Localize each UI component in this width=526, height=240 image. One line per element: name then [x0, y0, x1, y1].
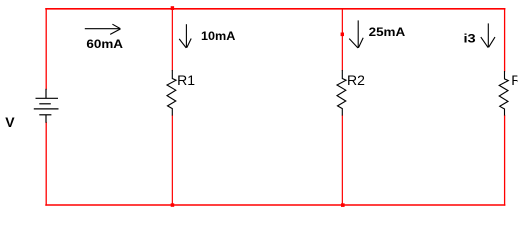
svg-text:R1: R1: [177, 72, 195, 88]
svg-text:10mA: 10mA: [201, 29, 236, 43]
svg-text:R2: R2: [347, 72, 365, 88]
svg-text:V: V: [5, 114, 15, 130]
svg-text:R3: R3: [511, 72, 526, 88]
svg-text:i3: i3: [464, 32, 477, 46]
svg-text:60mA: 60mA: [86, 37, 123, 51]
svg-text:25mA: 25mA: [369, 25, 406, 39]
